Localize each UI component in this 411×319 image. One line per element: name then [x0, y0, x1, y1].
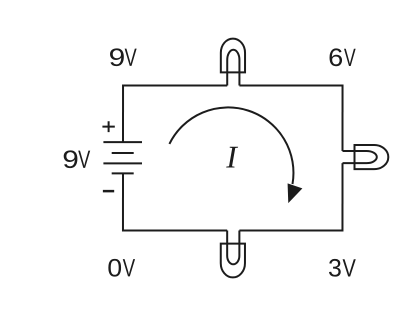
- wire left lower segment: [122, 173, 124, 231]
- lamp L2 right envelope: [354, 145, 388, 169]
- lamp L3 bottom envelope: [221, 244, 245, 278]
- wire right upper segment: [342, 85, 344, 151]
- label I current: [226, 147, 238, 168]
- battery plus sign: [102, 121, 114, 132]
- wire bottom-right segment: [239, 230, 342, 232]
- label 9V battery: [64, 150, 91, 168]
- lamp L3 bottom filament: [227, 231, 239, 265]
- label 3V bottom-right node: [329, 259, 356, 277]
- wire left upper segment: [122, 84, 124, 142]
- battery B1 plate long top: [103, 141, 142, 143]
- lamp L2 right filament: [342, 151, 376, 163]
- lamp L1 top filament: [227, 50, 239, 86]
- wire right lower segment: [341, 163, 343, 231]
- wire top-left segment: [123, 84, 227, 86]
- current direction arc: [169, 107, 293, 184]
- battery B1 plate short bottom: [112, 172, 134, 174]
- battery minus sign: [103, 190, 114, 193]
- wire bottom-left segment: [123, 229, 227, 231]
- lamp L1 top envelope: [221, 39, 245, 73]
- label 0V bottom-left node: [108, 259, 135, 277]
- wire top-right segment: [239, 85, 342, 87]
- battery B1 plate long lower: [103, 162, 142, 164]
- current arrowhead: [288, 183, 303, 203]
- battery B1 plate short: [112, 152, 134, 154]
- label 9V top-left node: [110, 48, 137, 66]
- label 6V top-right node: [330, 48, 356, 66]
